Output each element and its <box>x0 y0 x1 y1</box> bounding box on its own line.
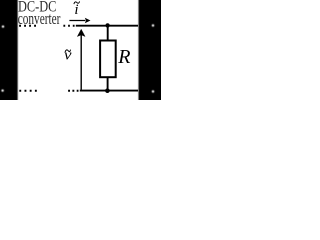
DC-DC converter block label <box>18 0 61 29</box>
current arrow <box>69 18 90 24</box>
current label i-tilde <box>74 2 79 18</box>
svg-text:R: R <box>117 46 130 68</box>
wire top rail <box>76 25 138 27</box>
svg-text:i: i <box>74 2 78 18</box>
wire bottom rail <box>80 90 138 92</box>
resistor R <box>100 41 116 78</box>
dashed bottom rail (converter side) <box>19 90 78 92</box>
svg-text:v: v <box>64 47 72 63</box>
node junction bottom <box>105 88 110 93</box>
voltage arrow v-tilde <box>77 29 85 90</box>
wire resistor bottom lead <box>107 77 109 91</box>
voltage label v-tilde <box>64 47 72 63</box>
node junction top <box>105 23 109 27</box>
wire resistor top lead <box>107 26 109 40</box>
dashed top rail (converter side) <box>19 25 75 27</box>
